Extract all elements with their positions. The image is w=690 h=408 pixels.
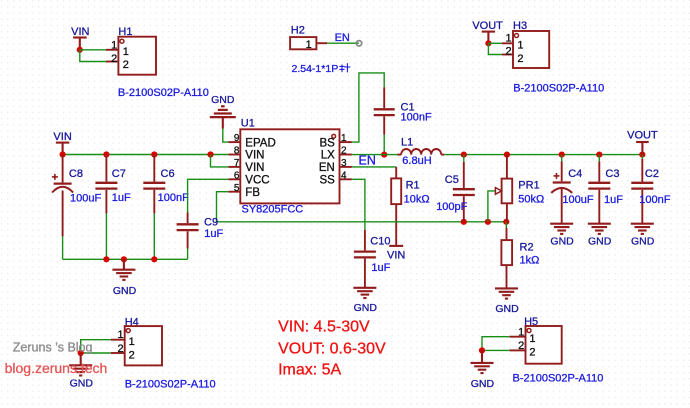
wire [153,213,155,259]
svg-text:100nF: 100nF [158,192,189,204]
ground symbol (H4) [69,353,93,390]
svg-text:GND: GND [495,303,519,315]
svg-text:GND: GND [588,236,612,248]
svg-text:2.54-1*1P: 2.54-1*1P [292,63,339,75]
svg-text:C8: C8 [69,168,83,180]
capacitor C1 [374,87,432,134]
junction dot [479,347,485,353]
wire [488,43,502,54]
svg-text:PR1: PR1 [518,179,539,191]
capacitor C5 [436,155,475,222]
svg-text:GND: GND [471,378,495,390]
power flag VIN (left rail) [53,131,71,154]
junction dot [121,256,127,262]
svg-text:1: 1 [306,39,312,51]
svg-text:SS: SS [319,175,335,187]
wire [482,337,510,351]
svg-text:2: 2 [517,53,523,65]
pin 5 FB [228,183,260,199]
wire EN [327,42,359,44]
pin 2 of H5 [510,340,536,358]
pin 8 VIN [228,146,264,162]
svg-text:blog.zeruns.tech: blog.zeruns.tech [5,360,108,376]
junction dot [103,256,109,262]
ground symbol (below C4) [550,224,574,248]
svg-text:100uF: 100uF [70,193,101,205]
svg-text:2: 2 [117,343,123,355]
svg-text:EN: EN [335,32,350,44]
svg-text:R2: R2 [520,242,534,254]
junction dot [151,256,157,262]
svg-text:4: 4 [341,170,347,181]
pin 1 of H2 [306,39,328,51]
svg-text:LX: LX [321,150,335,162]
svg-text:C6: C6 [161,168,175,180]
svg-text:C3: C3 [605,168,619,180]
svg-text:1uF: 1uF [604,194,623,206]
svg-text:1: 1 [111,39,117,51]
resistor R2 [501,222,539,289]
wire bottom gnd rail [63,258,188,260]
svg-text:EN: EN [319,162,335,174]
wire VIN rail [63,154,229,156]
ground symbol (below C2) [631,224,655,248]
svg-text:1: 1 [518,326,524,338]
junction dot [596,152,602,158]
capacitor C6 [143,155,189,214]
svg-text:6.8uH: 6.8uH [402,155,431,167]
pin 2 of H1 [106,53,129,71]
svg-text:7: 7 [234,158,240,169]
pin 1 of H5 [510,326,536,344]
svg-text:BS: BS [319,137,335,149]
pin 9 EPAD [228,133,275,149]
svg-text:2: 2 [111,53,117,65]
svg-text:B-2100S02P-A110: B-2100S02P-A110 [125,378,216,390]
junction dot [461,219,467,225]
wire LX rail [352,154,397,156]
ground symbol (below R2) [495,288,519,315]
svg-text:VIN: VIN [245,150,264,162]
svg-text:1uF: 1uF [204,228,223,240]
pin 6 VCC [228,170,269,186]
svg-text:Imax: 5A: Imax: 5A [278,361,341,378]
ground symbol (H5) [471,350,495,390]
wire [80,49,106,51]
svg-text:2: 2 [129,349,135,361]
junction dot [503,219,509,225]
connector H5 [524,316,562,364]
svg-text:VIN: 4.5-30V: VIN: 4.5-30V [278,319,370,336]
svg-text:9: 9 [234,133,240,144]
svg-text:C7: C7 [112,168,126,180]
svg-text:1: 1 [117,329,123,341]
junction dot [60,151,66,157]
svg-text:VOUT: 0.6-30V: VOUT: 0.6-30V [278,341,386,358]
wire [482,349,510,351]
svg-text:C2: C2 [645,168,659,180]
pin 3 EN [319,158,352,174]
wire [223,129,229,143]
svg-text:2: 2 [341,146,347,157]
svg-text:1kΩ: 1kΩ [520,254,540,266]
ground symbol (above U1 EPAD) [210,94,236,128]
ground symbol (below C3) [588,224,612,248]
svg-text:1: 1 [505,33,511,45]
value label 2.54-1*1P针 of H2 [292,63,351,75]
svg-text:C5: C5 [445,174,459,186]
svg-text:VCC: VCC [245,175,269,187]
svg-text:100uF: 100uF [562,194,593,206]
junction dot [461,152,467,158]
svg-text:VIN: VIN [53,131,71,143]
svg-text:2: 2 [518,340,524,352]
svg-text:B-2100S02P-A110: B-2100S02P-A110 [513,82,604,94]
power flag VOUT (right rail) [627,130,658,155]
svg-text:B-2100S02P-A110: B-2100S02P-A110 [513,373,604,385]
svg-text:VIN: VIN [387,250,405,262]
svg-text:H2: H2 [291,25,305,37]
capacitor C3 [588,155,623,224]
pin 2 of H4 [111,343,135,362]
capacitor C9 [177,213,224,249]
power flag VOUT (top, at H3) [472,20,503,43]
wire FB net [217,192,507,222]
wire VOUT rail [444,154,642,156]
svg-text:100pF: 100pF [436,201,467,213]
svg-text:C4: C4 [568,168,582,180]
capacitor C2 [631,155,670,224]
svg-text:100nF: 100nF [401,111,432,123]
svg-text:R1: R1 [406,179,420,191]
svg-text:EN: EN [359,153,376,167]
wire BS to C1 [352,73,384,142]
svg-text:GND: GND [631,236,655,248]
svg-text:GND: GND [354,302,378,314]
connector H3 [513,20,549,68]
inductor L1 [397,136,444,166]
pin 2 LX [321,146,352,162]
svg-text:SY8205FCC: SY8205FCC [242,203,304,215]
svg-text:2: 2 [529,347,535,359]
pin 1 of H1 [106,39,129,57]
svg-text:VIN: VIN [71,26,89,38]
svg-text:1: 1 [341,133,347,144]
svg-text:10kΩ: 10kΩ [404,193,430,205]
wire wiper to FB [488,191,495,222]
svg-text:FB: FB [245,187,260,199]
capacitor C8 [52,155,102,237]
capacitor C7 [95,155,131,214]
junction dot [485,40,491,46]
wire [62,236,64,259]
capacitor C4 [551,155,594,224]
junction dot [207,151,213,157]
svg-text:2: 2 [123,59,129,71]
junction dot [103,151,109,157]
wire [81,352,111,354]
junction dot [485,219,491,225]
svg-text:8: 8 [234,146,240,157]
svg-text:C10: C10 [370,235,390,247]
pin 1 of H4 [111,329,135,348]
svg-text:GND: GND [70,378,94,390]
connector H4 [125,316,162,365]
svg-text:1uF: 1uF [112,192,131,204]
svg-text:1: 1 [123,46,129,58]
svg-text:VIN: VIN [245,162,264,174]
svg-text:VOUT: VOUT [472,20,503,32]
ground symbol (below C10) [353,288,377,314]
junction dot [381,152,387,158]
junction dot [559,152,565,158]
wire [81,340,111,353]
svg-text:B-2100S02P-A110: B-2100S02P-A110 [118,87,209,99]
svg-text:1: 1 [129,336,135,348]
ground symbol (left rail) [112,259,136,297]
connector H1 [118,26,156,75]
pin 1 BS [319,133,351,149]
pin 7 VIN [228,158,264,174]
junction dot [504,152,510,158]
wire EN to R1 [352,166,396,168]
wire [187,249,189,260]
power flag VIN (top, at H1) [71,26,89,50]
IC U1 SY8205FCC [240,118,339,216]
svg-text:6: 6 [234,170,240,181]
pin 1 of H3 [502,33,524,52]
svg-text:100nF: 100nF [639,194,670,206]
svg-text:GND: GND [211,94,235,106]
svg-text:GND: GND [550,236,574,248]
pin 4 SS [319,170,351,186]
svg-text:VOUT: VOUT [627,130,658,142]
svg-text:1: 1 [529,333,535,345]
svg-text:5: 5 [234,183,240,194]
pin 2 of H3 [502,46,524,65]
svg-text:50kΩ: 50kΩ [518,193,544,205]
svg-text:1: 1 [517,39,523,51]
connector H2 [290,25,316,50]
svg-text:EPAD: EPAD [245,137,275,149]
svg-text:GND: GND [113,285,137,297]
junction dot [78,350,84,356]
resistor R1 [391,167,429,246]
junction dot [77,47,83,53]
wire [488,42,502,44]
junction dot [151,151,157,157]
junction dot [639,152,645,158]
power flag VIN (below R1) [387,246,405,262]
capacitor C10 [354,230,391,288]
wire VCC to C9 [188,179,229,212]
potentiometer PR1 [495,155,544,222]
wire SS to C10 [352,179,365,230]
svg-text:2: 2 [505,46,511,58]
wire to pin 7 [211,155,229,167]
svg-text:C9: C9 [204,217,218,229]
unconnected end marker [356,41,361,46]
svg-text:Zeruns ’s Blog: Zeruns ’s Blog [13,340,93,354]
wire [105,213,107,259]
svg-text:1uF: 1uF [371,262,390,274]
svg-text:L1: L1 [401,136,413,148]
wire [383,135,385,155]
svg-text:3: 3 [341,158,347,169]
svg-text:U1: U1 [241,118,255,130]
wire [80,50,106,62]
